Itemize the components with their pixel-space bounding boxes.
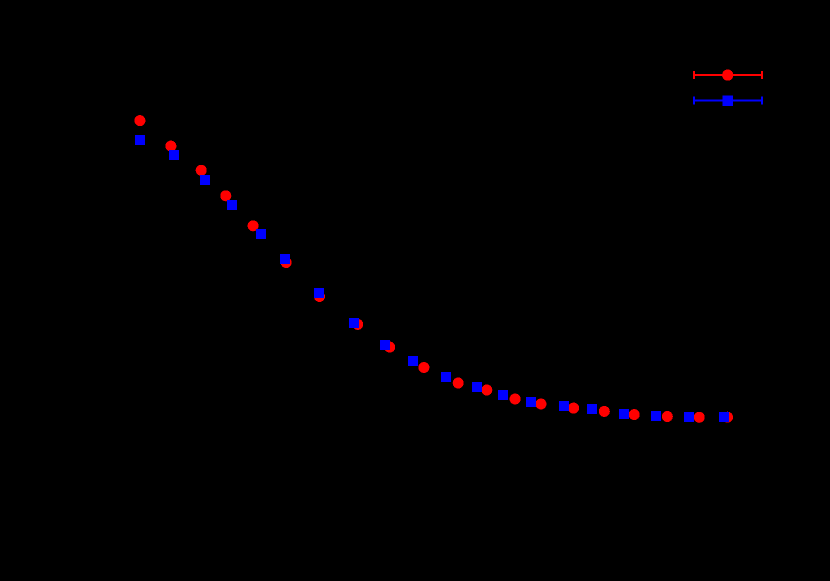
blue point 15: [559, 401, 569, 411]
legend red circle marker: [722, 70, 733, 81]
blue point 9: [380, 340, 390, 350]
red point 16: [599, 406, 610, 417]
red point 14: [536, 399, 547, 410]
blue point 11: [441, 372, 451, 382]
red point 4: [220, 190, 231, 201]
legend blue square marker: [722, 95, 733, 106]
legend entry red: error bar with caps and circle marker: [694, 71, 762, 79]
red point 13: [510, 394, 521, 405]
red point 5: [248, 220, 259, 231]
blue point 4: [227, 200, 237, 210]
red point 10: [418, 362, 429, 373]
red point 17: [629, 409, 640, 420]
blue point 1: [135, 135, 145, 145]
red point 18: [662, 411, 673, 422]
blue point 5: [256, 229, 266, 239]
red point 12: [481, 385, 492, 396]
legend entry blue: error bar with caps and square marker: [694, 97, 762, 105]
blue point 12: [472, 382, 482, 392]
blue point 14: [526, 397, 536, 407]
blue point 19: [684, 412, 694, 422]
red point 8: [352, 319, 363, 330]
blue point 8: [349, 318, 359, 328]
red point 19: [694, 412, 705, 423]
red point 2: [165, 141, 176, 152]
blue point 10: [408, 356, 418, 366]
blue point 7: [314, 288, 324, 298]
blue point 20: [719, 412, 729, 422]
red point 1: [134, 115, 145, 126]
blue point 16: [587, 404, 597, 414]
red point 9: [384, 342, 395, 353]
red point 7: [314, 291, 325, 302]
red point 6: [281, 257, 292, 268]
blue point 13: [498, 390, 508, 400]
series blue squares: [135, 135, 729, 422]
red point 20: [722, 412, 733, 423]
blue point 6: [280, 254, 290, 264]
red point 11: [453, 378, 464, 389]
blue point 3: [200, 175, 210, 185]
series red circles: [134, 115, 733, 423]
blue point 18: [651, 411, 661, 421]
red point 3: [196, 165, 207, 176]
red point 15: [568, 403, 579, 414]
blue point 17: [619, 409, 629, 419]
blue point 2: [169, 150, 179, 160]
